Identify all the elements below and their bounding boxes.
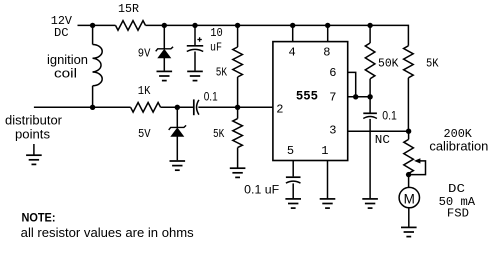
svg-text:points: points bbox=[15, 128, 50, 142]
svg-text:2: 2 bbox=[276, 103, 283, 117]
svg-text:6: 6 bbox=[329, 66, 336, 80]
svg-text:5K: 5K bbox=[213, 127, 225, 141]
svg-text:1: 1 bbox=[321, 144, 328, 158]
svg-text:calibration: calibration bbox=[429, 140, 488, 154]
svg-text:10: 10 bbox=[210, 26, 223, 40]
svg-text:1K: 1K bbox=[138, 84, 151, 98]
svg-text:FSD: FSD bbox=[447, 207, 469, 221]
svg-text:5K: 5K bbox=[426, 57, 439, 71]
svg-text:3: 3 bbox=[329, 124, 336, 138]
svg-text:4: 4 bbox=[288, 46, 295, 60]
svg-text:uF: uF bbox=[210, 40, 222, 54]
svg-text:555: 555 bbox=[296, 89, 318, 104]
svg-text:8: 8 bbox=[323, 46, 330, 60]
svg-text:0.1: 0.1 bbox=[382, 108, 397, 122]
svg-text:distributor: distributor bbox=[5, 113, 62, 127]
svg-text:15R: 15R bbox=[118, 2, 139, 16]
svg-text:0.1 uF: 0.1 uF bbox=[244, 183, 279, 197]
svg-text:50K: 50K bbox=[378, 57, 399, 71]
svg-text:ignition: ignition bbox=[47, 53, 88, 67]
svg-text:DC: DC bbox=[448, 182, 465, 196]
svg-text:NOTE:: NOTE: bbox=[22, 210, 56, 224]
svg-text:7: 7 bbox=[329, 91, 336, 105]
svg-text:5: 5 bbox=[287, 144, 294, 158]
svg-text:M: M bbox=[404, 191, 415, 206]
svg-text:DC: DC bbox=[54, 26, 69, 40]
svg-text:0.1: 0.1 bbox=[204, 90, 218, 104]
svg-text:5V: 5V bbox=[138, 127, 151, 141]
svg-text:coil: coil bbox=[54, 67, 77, 81]
svg-text:9V: 9V bbox=[138, 46, 151, 60]
svg-text:all resistor values are in ohm: all resistor values are in ohms bbox=[21, 226, 194, 240]
svg-text:NC: NC bbox=[375, 133, 390, 147]
svg-text:5K: 5K bbox=[216, 65, 228, 79]
